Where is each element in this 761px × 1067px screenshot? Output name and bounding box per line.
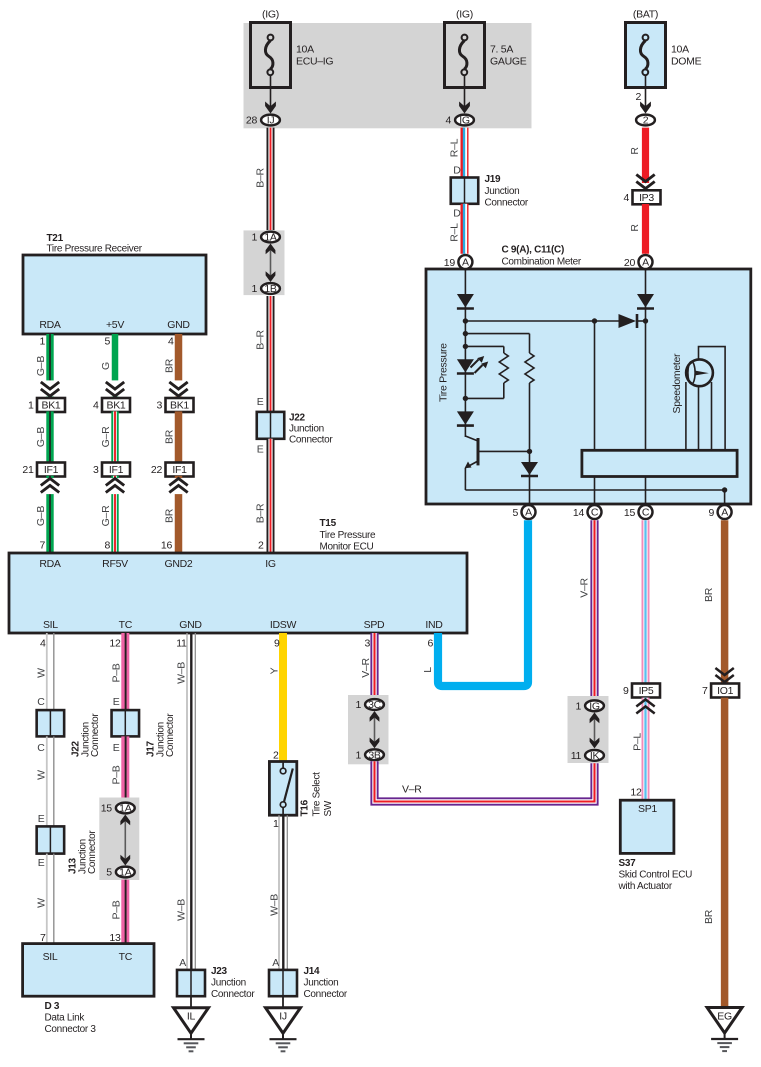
svg-text:4: 4 bbox=[168, 336, 174, 348]
meter pin 20 terminal bbox=[624, 255, 653, 269]
connector 1A pin 15 bbox=[101, 803, 135, 815]
svg-text:P–L: P–L bbox=[632, 733, 644, 751]
svg-text:21: 21 bbox=[22, 464, 34, 476]
svg-text:4: 4 bbox=[623, 192, 629, 204]
svg-text:Connector: Connector bbox=[165, 713, 176, 757]
svg-text:B–R: B–R bbox=[255, 330, 267, 350]
svg-text:19: 19 bbox=[444, 257, 456, 269]
resistor R1 bbox=[465, 346, 508, 398]
svg-text:7: 7 bbox=[702, 685, 708, 697]
svg-text:GND2: GND2 bbox=[165, 558, 193, 570]
svg-text:J14: J14 bbox=[304, 966, 321, 977]
svg-text:Connector: Connector bbox=[289, 435, 333, 446]
svg-text:Combination Meter: Combination Meter bbox=[502, 257, 582, 268]
svg-text:1: 1 bbox=[355, 699, 361, 711]
ground IJ bbox=[266, 1008, 301, 1052]
svg-text:1A: 1A bbox=[119, 803, 132, 815]
svg-text:3B: 3B bbox=[368, 749, 381, 761]
svg-text:3: 3 bbox=[364, 638, 370, 650]
svg-text:P–B: P–B bbox=[111, 900, 123, 919]
svg-text:Junction: Junction bbox=[211, 978, 246, 989]
diode D5 (pin 5 line) bbox=[521, 451, 538, 504]
svg-text:2: 2 bbox=[273, 750, 279, 762]
wire G T21 +5V pin 5 to connector BK1 bbox=[100, 334, 126, 399]
wire R-L connector IG to junction connector J19 bbox=[449, 128, 466, 178]
svg-text:Connector 3: Connector 3 bbox=[45, 1024, 97, 1035]
svg-text:BK1: BK1 bbox=[42, 400, 61, 412]
wire fuse DOME pin 2 to connector 2 bbox=[635, 75, 650, 114]
svg-text:R: R bbox=[629, 224, 641, 232]
svg-text:A: A bbox=[272, 957, 279, 969]
svg-text:W: W bbox=[36, 770, 48, 780]
ground EG bbox=[707, 1008, 742, 1052]
wire BR connector IO1 to ground EG bbox=[703, 698, 725, 1008]
svg-text:J19: J19 bbox=[485, 174, 502, 185]
switch T16 Tire Select SW bbox=[269, 762, 334, 817]
meter pin 9 terminal bbox=[709, 505, 732, 519]
svg-text:W: W bbox=[36, 668, 48, 678]
svg-text:2: 2 bbox=[643, 115, 649, 127]
svg-text:14: 14 bbox=[573, 507, 585, 519]
fuse 10A DOME bbox=[626, 9, 702, 88]
svg-text:7. 5A: 7. 5A bbox=[490, 44, 513, 56]
combination meter C9(A) C11(C) body bbox=[426, 245, 751, 505]
svg-text:C: C bbox=[37, 742, 45, 754]
svg-text:A: A bbox=[721, 507, 728, 519]
svg-text:9: 9 bbox=[274, 638, 280, 650]
svg-text:22: 22 bbox=[151, 464, 163, 476]
junction connector J17 bbox=[112, 710, 176, 757]
svg-text:Junction: Junction bbox=[304, 978, 339, 989]
svg-text:RDA: RDA bbox=[39, 558, 61, 570]
svg-text:IF1: IF1 bbox=[44, 464, 59, 476]
svg-text:12: 12 bbox=[630, 787, 642, 799]
svg-text:9: 9 bbox=[709, 507, 715, 519]
LED tire pressure indicator bbox=[457, 356, 488, 374]
wire fuse ECU-IG to connector IJ bbox=[265, 75, 276, 114]
meter internal wire pin 20 branch bbox=[645, 270, 647, 450]
svg-text:IL: IL bbox=[187, 1011, 196, 1023]
svg-text:A: A bbox=[179, 957, 186, 969]
svg-text:12: 12 bbox=[109, 638, 121, 650]
wire W-B T15 GND pin 11 to junction connector J23 bbox=[176, 633, 196, 970]
svg-text:IF1: IF1 bbox=[109, 464, 124, 476]
svg-text:1: 1 bbox=[355, 749, 361, 761]
svg-text:ECU–IG: ECU–IG bbox=[296, 56, 333, 68]
svg-text:IJ: IJ bbox=[279, 1011, 287, 1023]
svg-text:Data Link: Data Link bbox=[45, 1013, 86, 1024]
svg-text:Speedometer: Speedometer bbox=[671, 353, 683, 414]
wire V-R connector IG to meter pin 14 bbox=[579, 520, 595, 698]
svg-text:Connector: Connector bbox=[304, 989, 348, 1000]
svg-text:P–B: P–B bbox=[111, 663, 123, 682]
connector 3C pin 1 bbox=[355, 699, 383, 711]
meter pin 5 terminal bbox=[512, 505, 535, 519]
svg-text:E: E bbox=[113, 742, 120, 754]
svg-text:BR: BR bbox=[703, 587, 715, 602]
wire L T15 IND pin 6 to meter pin 5 bbox=[422, 520, 528, 686]
svg-text:A: A bbox=[525, 507, 532, 519]
connector 1B pin 1 bbox=[251, 283, 279, 295]
svg-text:IK: IK bbox=[590, 750, 600, 762]
connector BK1 pin 3 (GND) bbox=[156, 398, 193, 412]
wire G-B connector BK1 to connector IF1 bbox=[35, 411, 50, 463]
svg-text:BR: BR bbox=[164, 358, 176, 373]
svg-text:1A: 1A bbox=[119, 867, 132, 879]
svg-text:3C: 3C bbox=[368, 699, 382, 711]
wire G-R connector IF1 to T15 pin 8 bbox=[100, 476, 126, 553]
wire B-R connector 1B to junction connector J22 bbox=[255, 296, 271, 412]
svg-text:W–B: W–B bbox=[176, 662, 188, 684]
connector D3 Data Link Connector 3 bbox=[23, 944, 154, 1035]
wire junction connector J23 to ground IL bbox=[190, 996, 192, 1008]
svg-text:10A: 10A bbox=[296, 44, 314, 56]
svg-text:2: 2 bbox=[635, 91, 641, 103]
svg-text:7: 7 bbox=[39, 540, 45, 552]
connector pair 1A/1A shaded box (TC) bbox=[99, 798, 139, 881]
svg-text:9: 9 bbox=[623, 685, 629, 697]
svg-text:1B: 1B bbox=[264, 283, 277, 295]
connector BK1 pin 1 (RDA) bbox=[28, 398, 65, 412]
fuse 7.5A GAUGE bbox=[445, 9, 527, 88]
connector 3B pin 1 bbox=[355, 749, 383, 761]
svg-text:BK1: BK1 bbox=[170, 400, 189, 412]
ECU T15 Tire Pressure Monitor ECU bbox=[9, 518, 467, 633]
diode D2 (pin 20) bbox=[637, 294, 654, 309]
connector 1A pin 5 bbox=[106, 867, 134, 879]
svg-text:1: 1 bbox=[575, 700, 581, 712]
wire G-B T21 RDA pin 1 to connector BK1 bbox=[35, 334, 61, 399]
svg-text:15: 15 bbox=[101, 803, 113, 815]
svg-text:1: 1 bbox=[28, 400, 34, 412]
svg-text:5: 5 bbox=[106, 867, 112, 879]
svg-text:B–R: B–R bbox=[255, 168, 267, 188]
wire R-L junction connector J19 to combination meter pin 19 bbox=[449, 204, 466, 254]
wire junction connector J14 to ground IJ bbox=[282, 996, 284, 1008]
svg-text:Connector: Connector bbox=[90, 713, 101, 757]
svg-text:IO1: IO1 bbox=[717, 685, 733, 697]
wire R connector IP3 to combination meter pin 20 bbox=[629, 204, 646, 254]
svg-text:Monitor ECU: Monitor ECU bbox=[320, 542, 374, 553]
svg-text:TC: TC bbox=[119, 619, 133, 631]
svg-text:2: 2 bbox=[258, 540, 264, 552]
svg-text:4: 4 bbox=[40, 638, 46, 650]
connector pair 3C/3B shaded box bbox=[348, 695, 389, 764]
svg-text:B–R: B–R bbox=[255, 503, 267, 523]
svg-text:D: D bbox=[453, 165, 461, 177]
wire W junction connector J22 to junction connector J13 bbox=[36, 736, 54, 826]
svg-text:A: A bbox=[642, 257, 649, 269]
junction connector J14 bbox=[269, 966, 348, 1000]
svg-text:RDA: RDA bbox=[39, 319, 61, 331]
fuse 10A ECU-IG bbox=[251, 9, 334, 88]
svg-text:G: G bbox=[100, 362, 112, 370]
wire BR connector BK1 to connector IF1 bbox=[164, 411, 179, 463]
junction connector J13 bbox=[37, 826, 98, 874]
connector IF1 pin 3 (+5V) bbox=[93, 463, 130, 477]
svg-text:D 3: D 3 bbox=[45, 1001, 60, 1012]
wire Y T15 IDSW pin 9 to T16 pin 2 bbox=[269, 633, 284, 762]
svg-text:Skid Control ECU: Skid Control ECU bbox=[619, 870, 693, 881]
svg-text:IG: IG bbox=[589, 700, 600, 712]
svg-text:T15: T15 bbox=[320, 518, 337, 529]
svg-text:5: 5 bbox=[512, 507, 518, 519]
wire BR T21 GND pin 4 to connector BK1 bbox=[164, 334, 190, 399]
svg-text:E: E bbox=[257, 444, 264, 456]
connector IP5 pin 9 bbox=[623, 684, 660, 698]
svg-text:BR: BR bbox=[164, 508, 176, 523]
connector pair IG/IK shaded box bbox=[568, 696, 609, 763]
svg-text:T21: T21 bbox=[47, 233, 64, 244]
wire fuse GAUGE to connector IG bbox=[459, 75, 470, 114]
ECU S37 Skid Control ECU with Actuator bbox=[618, 800, 693, 892]
svg-text:W: W bbox=[36, 898, 48, 908]
connector IG pin 4 bbox=[445, 115, 473, 127]
svg-text:C 9(A), C11(C): C 9(A), C11(C) bbox=[502, 245, 564, 256]
connector IJ pin 28 bbox=[246, 115, 280, 127]
svg-text:(BAT): (BAT) bbox=[633, 9, 658, 21]
svg-text:16: 16 bbox=[161, 540, 173, 552]
connector IK pin 11 bbox=[571, 750, 604, 762]
speedometer gauge bbox=[686, 347, 725, 451]
wire W junction connector J13 to D3 pin 7 bbox=[36, 854, 54, 944]
svg-text:Connector: Connector bbox=[211, 989, 255, 1000]
svg-text:R–L: R–L bbox=[449, 223, 461, 242]
svg-text:Tire Select: Tire Select bbox=[312, 772, 323, 817]
svg-text:11: 11 bbox=[571, 750, 582, 762]
svg-text:1: 1 bbox=[39, 336, 45, 348]
svg-text:20: 20 bbox=[624, 257, 636, 269]
svg-text:RF5V: RF5V bbox=[102, 558, 128, 570]
svg-text:G–B: G–B bbox=[35, 356, 47, 376]
svg-text:DOME: DOME bbox=[671, 56, 702, 68]
svg-text:3: 3 bbox=[156, 400, 162, 412]
svg-text:R: R bbox=[629, 147, 641, 155]
connector 2 bbox=[636, 115, 655, 127]
svg-text:EG: EG bbox=[717, 1011, 732, 1023]
svg-text:8: 8 bbox=[104, 540, 110, 552]
meter internal pin 15 line bbox=[645, 450, 647, 504]
svg-text:IP5: IP5 bbox=[639, 685, 654, 697]
wire G-B connector IF1 to T15 pin 7 bbox=[35, 476, 61, 553]
svg-text:TC: TC bbox=[119, 951, 133, 963]
label Tire Pressure bbox=[438, 343, 450, 402]
wire BR connector IF1 to T15 pin 16 bbox=[161, 476, 189, 553]
ground IL bbox=[174, 1008, 209, 1052]
svg-text:L: L bbox=[422, 667, 434, 673]
wire B-R connector IJ to connector 1A bbox=[255, 128, 271, 230]
svg-text:1A: 1A bbox=[264, 232, 277, 244]
diode D4 (below LED) bbox=[457, 411, 474, 425]
svg-text:C: C bbox=[37, 696, 45, 708]
wire P-L meter pin 15 to connector IP5 bbox=[642, 520, 650, 683]
svg-text:IG: IG bbox=[459, 115, 470, 127]
svg-text:10A: 10A bbox=[671, 44, 689, 56]
wire R connector 2 to connector IP3 bbox=[629, 128, 655, 189]
wire P-B T15 TC pin 12 to junction connector J17 bbox=[109, 633, 125, 710]
svg-text:P–B: P–B bbox=[111, 765, 123, 784]
svg-text:D: D bbox=[453, 208, 461, 220]
svg-text:C: C bbox=[642, 507, 650, 519]
svg-text:3: 3 bbox=[93, 464, 99, 476]
wire P-B connector 1A to D3 pin 13 bbox=[109, 880, 125, 944]
svg-text:11: 11 bbox=[176, 638, 187, 650]
svg-text:V–R: V–R bbox=[360, 658, 372, 678]
svg-text:15: 15 bbox=[624, 507, 636, 519]
diode D1 (pin 19) bbox=[457, 294, 474, 309]
svg-text:A: A bbox=[462, 257, 469, 269]
transistor Q1 bbox=[465, 436, 533, 490]
svg-text:4: 4 bbox=[93, 400, 99, 412]
svg-text:Connector: Connector bbox=[87, 830, 98, 874]
connector pair 1A/1B shaded box bbox=[244, 230, 285, 295]
svg-text:G–B: G–B bbox=[35, 427, 47, 447]
svg-text:IJ: IJ bbox=[267, 115, 275, 127]
connector IF1 pin 21 (RDA) bbox=[22, 463, 65, 477]
wire P-L connector IP5 to S37 pin 12 bbox=[630, 698, 654, 801]
svg-text:SW: SW bbox=[323, 800, 334, 816]
svg-text:R–L: R–L bbox=[449, 138, 461, 157]
junction connector J19 bbox=[451, 174, 529, 209]
svg-text:W–B: W–B bbox=[269, 894, 281, 916]
svg-text:G–R: G–R bbox=[100, 505, 112, 526]
svg-text:GND: GND bbox=[167, 319, 190, 331]
svg-text:GND: GND bbox=[179, 619, 202, 631]
svg-text:1: 1 bbox=[251, 283, 257, 295]
svg-text:Y: Y bbox=[269, 667, 281, 674]
node dots on pin19 branch bbox=[463, 318, 649, 401]
svg-text:C: C bbox=[591, 507, 599, 519]
svg-text:W–B: W–B bbox=[176, 899, 188, 921]
svg-text:IDSW: IDSW bbox=[270, 619, 297, 631]
wire P-B junction connector J17 to connector 1A bbox=[111, 736, 126, 800]
svg-text:E: E bbox=[38, 813, 45, 825]
ECU T21 Tire Pressure Receiver bbox=[23, 233, 206, 334]
junction connector J22 (SIL) bbox=[37, 710, 101, 757]
meter internal wire pin 19 branch bbox=[464, 270, 466, 437]
svg-text:BR: BR bbox=[164, 429, 176, 444]
svg-text:E: E bbox=[113, 696, 120, 708]
junction connector J23 bbox=[177, 966, 255, 1000]
svg-text:SIL: SIL bbox=[43, 951, 58, 963]
svg-text:E: E bbox=[257, 396, 264, 408]
svg-text:SPD: SPD bbox=[364, 619, 385, 631]
connector 1A pin 1 bbox=[251, 232, 279, 244]
svg-text:Tire Pressure: Tire Pressure bbox=[438, 343, 450, 402]
svg-text:S37: S37 bbox=[619, 858, 637, 869]
svg-text:BR: BR bbox=[703, 909, 715, 924]
svg-text:Connector: Connector bbox=[485, 198, 529, 209]
meter internal bottom rail bbox=[465, 487, 727, 504]
wire BR meter pin 9 to connector IO1 bbox=[703, 520, 734, 683]
svg-text:IF1: IF1 bbox=[172, 464, 187, 476]
resistor R2 bbox=[465, 334, 534, 452]
svg-text:Junction: Junction bbox=[289, 424, 324, 435]
connector IO1 pin 7 bbox=[702, 684, 739, 698]
meter pin 15 terminal bbox=[624, 505, 653, 519]
svg-text:28: 28 bbox=[246, 115, 258, 127]
svg-text:SIL: SIL bbox=[43, 619, 58, 631]
meter pin 19 terminal bbox=[444, 255, 473, 269]
svg-text:(IG): (IG) bbox=[262, 9, 279, 21]
meter internal ECU block bbox=[582, 450, 737, 476]
wire V-R connector 3B to connector IK bbox=[375, 761, 595, 801]
connector IF1 pin 22 (GND) bbox=[151, 463, 194, 477]
connector BK1 pin 4 (+5V) bbox=[93, 398, 130, 412]
svg-text:G–R: G–R bbox=[100, 426, 112, 447]
junction connector J22 (top) bbox=[257, 412, 334, 446]
svg-text:IP3: IP3 bbox=[639, 192, 654, 204]
wire V-R T15 SPD pin 3 to connector 3C bbox=[360, 633, 375, 697]
svg-text:V–R: V–R bbox=[579, 578, 591, 598]
svg-text:BK1: BK1 bbox=[107, 400, 126, 412]
svg-text:(IG): (IG) bbox=[456, 9, 473, 21]
meter internal horizontal bus with diode D3 bbox=[465, 314, 645, 328]
wire W T15 SIL pin 4 to junction connector J22 bbox=[36, 633, 54, 710]
meter pin 14 terminal bbox=[573, 505, 602, 519]
fuse block shaded band bbox=[244, 23, 532, 128]
svg-text:V–R: V–R bbox=[402, 784, 422, 796]
svg-text:1: 1 bbox=[273, 818, 279, 830]
wire W-B T16 pin 1 to junction connector J14 bbox=[269, 815, 288, 970]
svg-text:SP1: SP1 bbox=[638, 803, 657, 815]
svg-text:4: 4 bbox=[445, 115, 451, 127]
svg-text:+5V: +5V bbox=[106, 319, 124, 331]
svg-text:J22: J22 bbox=[289, 413, 306, 424]
meter internal pin 14 line bbox=[594, 321, 596, 504]
svg-text:6: 6 bbox=[427, 638, 433, 650]
connector IP3 pin 4 bbox=[623, 190, 660, 204]
svg-text:GAUGE: GAUGE bbox=[490, 56, 527, 68]
svg-text:Tire Pressure: Tire Pressure bbox=[320, 530, 376, 541]
svg-text:1: 1 bbox=[251, 232, 257, 244]
connector IG pin 1 bbox=[575, 700, 603, 712]
svg-text:G–B: G–B bbox=[35, 506, 47, 526]
wire G-R connector BK1 to connector IF1 bbox=[100, 411, 115, 463]
wire B-R junction connector J22 to T15 pin 2 bbox=[255, 439, 271, 553]
svg-text:IND: IND bbox=[425, 619, 443, 631]
svg-text:E: E bbox=[38, 857, 45, 869]
svg-text:5: 5 bbox=[104, 336, 110, 348]
svg-text:J23: J23 bbox=[211, 966, 228, 977]
svg-text:Tire Pressure Receiver: Tire Pressure Receiver bbox=[47, 244, 143, 255]
svg-text:with Actuator: with Actuator bbox=[618, 881, 673, 892]
svg-text:T16: T16 bbox=[300, 799, 311, 816]
svg-text:IG: IG bbox=[265, 558, 276, 570]
label Speedometer bbox=[671, 353, 683, 414]
svg-text:Junction: Junction bbox=[485, 186, 520, 197]
